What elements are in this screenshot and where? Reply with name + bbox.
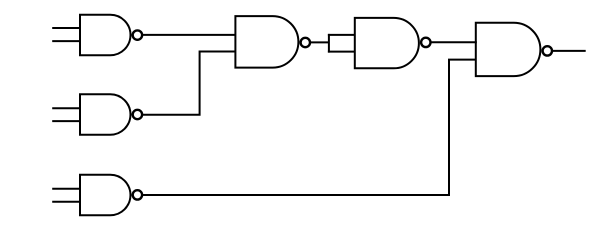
wire U5 input A (52, 107, 80, 109)
node tie-bar joining U3 inputs (328, 34, 330, 53)
wire U6 output to U4 input B (long run, riser at x=449) (143, 60, 476, 195)
wire U4 output (553, 50, 586, 52)
wire U2 output to tie node (311, 41, 329, 43)
nand-gate U4 (right) body (476, 23, 541, 76)
nand-gate U6 (bottom-left) body (80, 175, 130, 215)
nand-gate U3 bubble (421, 38, 430, 47)
nand-gate U6 bubble (133, 190, 142, 199)
wire U1 input B (52, 40, 80, 42)
wire U5 output to U2 input B (riser at x=199.6) (143, 52, 235, 115)
nand-gate U2 (top-center) body (235, 16, 298, 68)
nand-gate U5 (middle-left) body (80, 94, 130, 134)
nand-gate U1 bubble (133, 30, 142, 39)
wire tie to U3 input B (328, 51, 356, 53)
wire U3 output to U4 input A (432, 41, 477, 43)
nand-gate U3 (top-right-center) body (355, 18, 419, 68)
wire U1 input A (52, 27, 80, 29)
wire U6 input B (52, 201, 80, 203)
wire tie to U3 input A (328, 34, 356, 36)
nand-gate U4 bubble (543, 46, 552, 55)
wire U1 output to U2 input A (143, 34, 235, 36)
wire U6 input A (52, 188, 80, 190)
nand-gate U5 bubble (133, 110, 142, 119)
nand-gate U1 (top-left) body (80, 15, 131, 55)
nand-gate U2 bubble (301, 38, 310, 47)
wire U5 input B (52, 120, 80, 122)
